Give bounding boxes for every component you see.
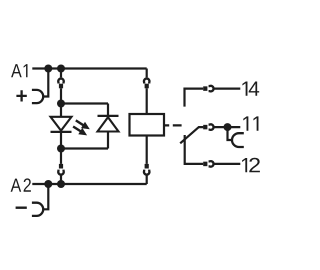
terminal label A1 xyxy=(11,64,22,77)
plug socket terminal 11 xyxy=(209,124,214,130)
plug socket (module connector, left top) xyxy=(58,79,64,84)
LED emission arrow 1 xyxy=(76,120,89,128)
wire terminal 14 xyxy=(213,87,240,89)
junction dot A2 LED-branch tap xyxy=(57,180,65,188)
wire LED branch upper stub xyxy=(60,69,62,78)
wire diode loop right lower xyxy=(107,132,109,149)
plug socket (module connector, coil bottom) xyxy=(144,170,150,175)
junction dot A1-clamp tap xyxy=(44,65,52,73)
wire LED branch to A2 rail xyxy=(60,175,62,184)
terminal label A2 xyxy=(11,179,22,192)
wire 11 clamp drop xyxy=(228,127,233,140)
freewheel diode triangle xyxy=(98,117,119,131)
node: LED/diode parallel top xyxy=(57,100,65,108)
wire A2 horizontal rail xyxy=(32,183,146,185)
plug socket (module connector, left bottom) xyxy=(58,170,64,175)
wire A1 clamp drop xyxy=(43,69,48,97)
plug pin terminal 14 xyxy=(203,86,207,91)
wire LED branch lower stub xyxy=(60,149,62,164)
wire coil bottom lead xyxy=(146,136,148,164)
wire coil top lead xyxy=(146,88,148,114)
relay coil K1 xyxy=(130,114,165,136)
plug pin (module connector, left bottom) xyxy=(59,164,63,169)
LED emission arrow 2 xyxy=(73,127,86,135)
wire LED anode lead xyxy=(60,104,62,117)
wire coil branch to A2 rail xyxy=(146,175,148,184)
wire A1 horizontal rail xyxy=(32,67,146,69)
LED cathode bar xyxy=(51,131,72,133)
plug pin (module connector, coil bottom) xyxy=(145,164,149,169)
plug pin (module connector, left top) xyxy=(59,84,63,89)
node: LED/diode parallel bottom xyxy=(57,145,65,153)
LED triangle xyxy=(51,117,72,131)
wire A2 clamp riser xyxy=(43,184,48,209)
wire diode loop top xyxy=(61,102,108,104)
wire coil branch corner from A1 rail xyxy=(146,69,148,78)
cage clamp terminal A2 xyxy=(32,203,43,216)
plug socket (module connector, coil top) xyxy=(144,79,150,84)
terminal label 12 xyxy=(242,158,247,172)
contact lever (common 11) xyxy=(180,127,203,143)
terminal label 11 xyxy=(243,116,248,130)
plug pin terminal 12 xyxy=(203,162,207,167)
plus polarity mark xyxy=(16,90,26,101)
minus polarity mark xyxy=(16,206,27,208)
wire LED cathode lead xyxy=(60,132,62,149)
wire terminal 11 xyxy=(213,126,240,128)
cage clamp terminal A1 xyxy=(32,90,43,103)
wire LED branch to node xyxy=(60,88,62,103)
junction dot A2-clamp tap xyxy=(44,180,52,188)
terminal label 14 xyxy=(242,82,247,96)
contact NO fixed post (to 14) xyxy=(185,89,204,107)
plug socket terminal 12 xyxy=(209,161,214,167)
cage clamp terminal 11 xyxy=(232,133,244,147)
plug pin (module connector, coil top) xyxy=(145,84,149,89)
junction dot A1 LED-branch tap xyxy=(57,65,65,73)
contact NC fixed post (to 12) xyxy=(185,135,204,164)
wire terminal 12 xyxy=(213,163,240,165)
wire diode loop right upper xyxy=(107,104,109,116)
junction dot terminal 11 clamp tap xyxy=(224,123,232,131)
freewheel diode cathode bar xyxy=(98,115,119,117)
wire diode loop bottom xyxy=(61,147,108,149)
mechanical link (dashed) coil to contact xyxy=(164,124,182,126)
plug socket terminal 14 xyxy=(209,86,214,92)
plug pin terminal 11 xyxy=(203,125,207,130)
